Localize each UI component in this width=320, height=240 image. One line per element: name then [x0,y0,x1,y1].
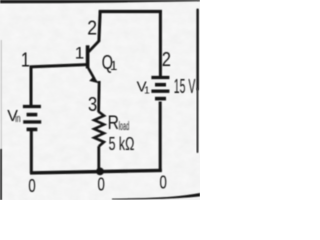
svg-text:load: load [119,121,130,133]
svg-text:1: 1 [21,50,30,72]
svg-text:1: 1 [144,85,150,96]
Q1 emitter diagonal with arrow [88,67,95,79]
svg-text:3: 3 [88,94,97,116]
V1 plate short [155,83,166,87]
Vin plate short bottom [27,128,38,132]
svg-text:1: 1 [75,43,84,62]
svg-text:0: 0 [28,176,35,196]
Vin plate long top [23,105,41,108]
svg-text:2: 2 [162,49,171,71]
wire right upper (node 2) [159,10,162,76]
wire top (node 2): collector corner to right battery [99,10,162,13]
Vin plate long [23,120,41,123]
battery V_in (left source) [23,107,41,130]
wire base (node 1): left rail to transistor base [30,65,87,67]
V1 plate long [151,89,169,92]
svg-text:0: 0 [159,173,166,193]
svg-text:1: 1 [110,58,117,73]
Q1 emitter arrowhead [89,76,99,83]
resistor Rload zigzag [94,112,104,147]
battery V1 (right source) [151,78,169,99]
wire right lower (node 0): battery minus to bottom rail [159,102,162,172]
svg-text:0: 0 [98,175,105,195]
junction node 0 dot [96,168,104,176]
transistor Q1 (NPN) [88,40,100,79]
wire bottom rail (node 0) [30,170,162,173]
svg-text:5 kΩ: 5 kΩ [109,134,135,154]
wire left upper (node 1) [30,66,33,106]
svg-text:in: in [15,113,21,125]
wire left lower (node 0): battery minus to bottom rail [30,131,33,174]
svg-text:R: R [108,112,119,134]
wire emitter vertical (node 3) [97,81,100,112]
wire resistor bottom lead (node 0) [97,146,100,171]
V1 plate short bottom [155,97,166,101]
Q1 collector diagonal [89,40,100,51]
Q1 base bar [86,45,90,68]
Vin plate short [27,113,38,117]
svg-text:2: 2 [87,17,97,39]
svg-text:15 V: 15 V [174,75,196,98]
wire collector vertical (node 2) [99,11,100,42]
V1 plate long top [151,76,169,79]
